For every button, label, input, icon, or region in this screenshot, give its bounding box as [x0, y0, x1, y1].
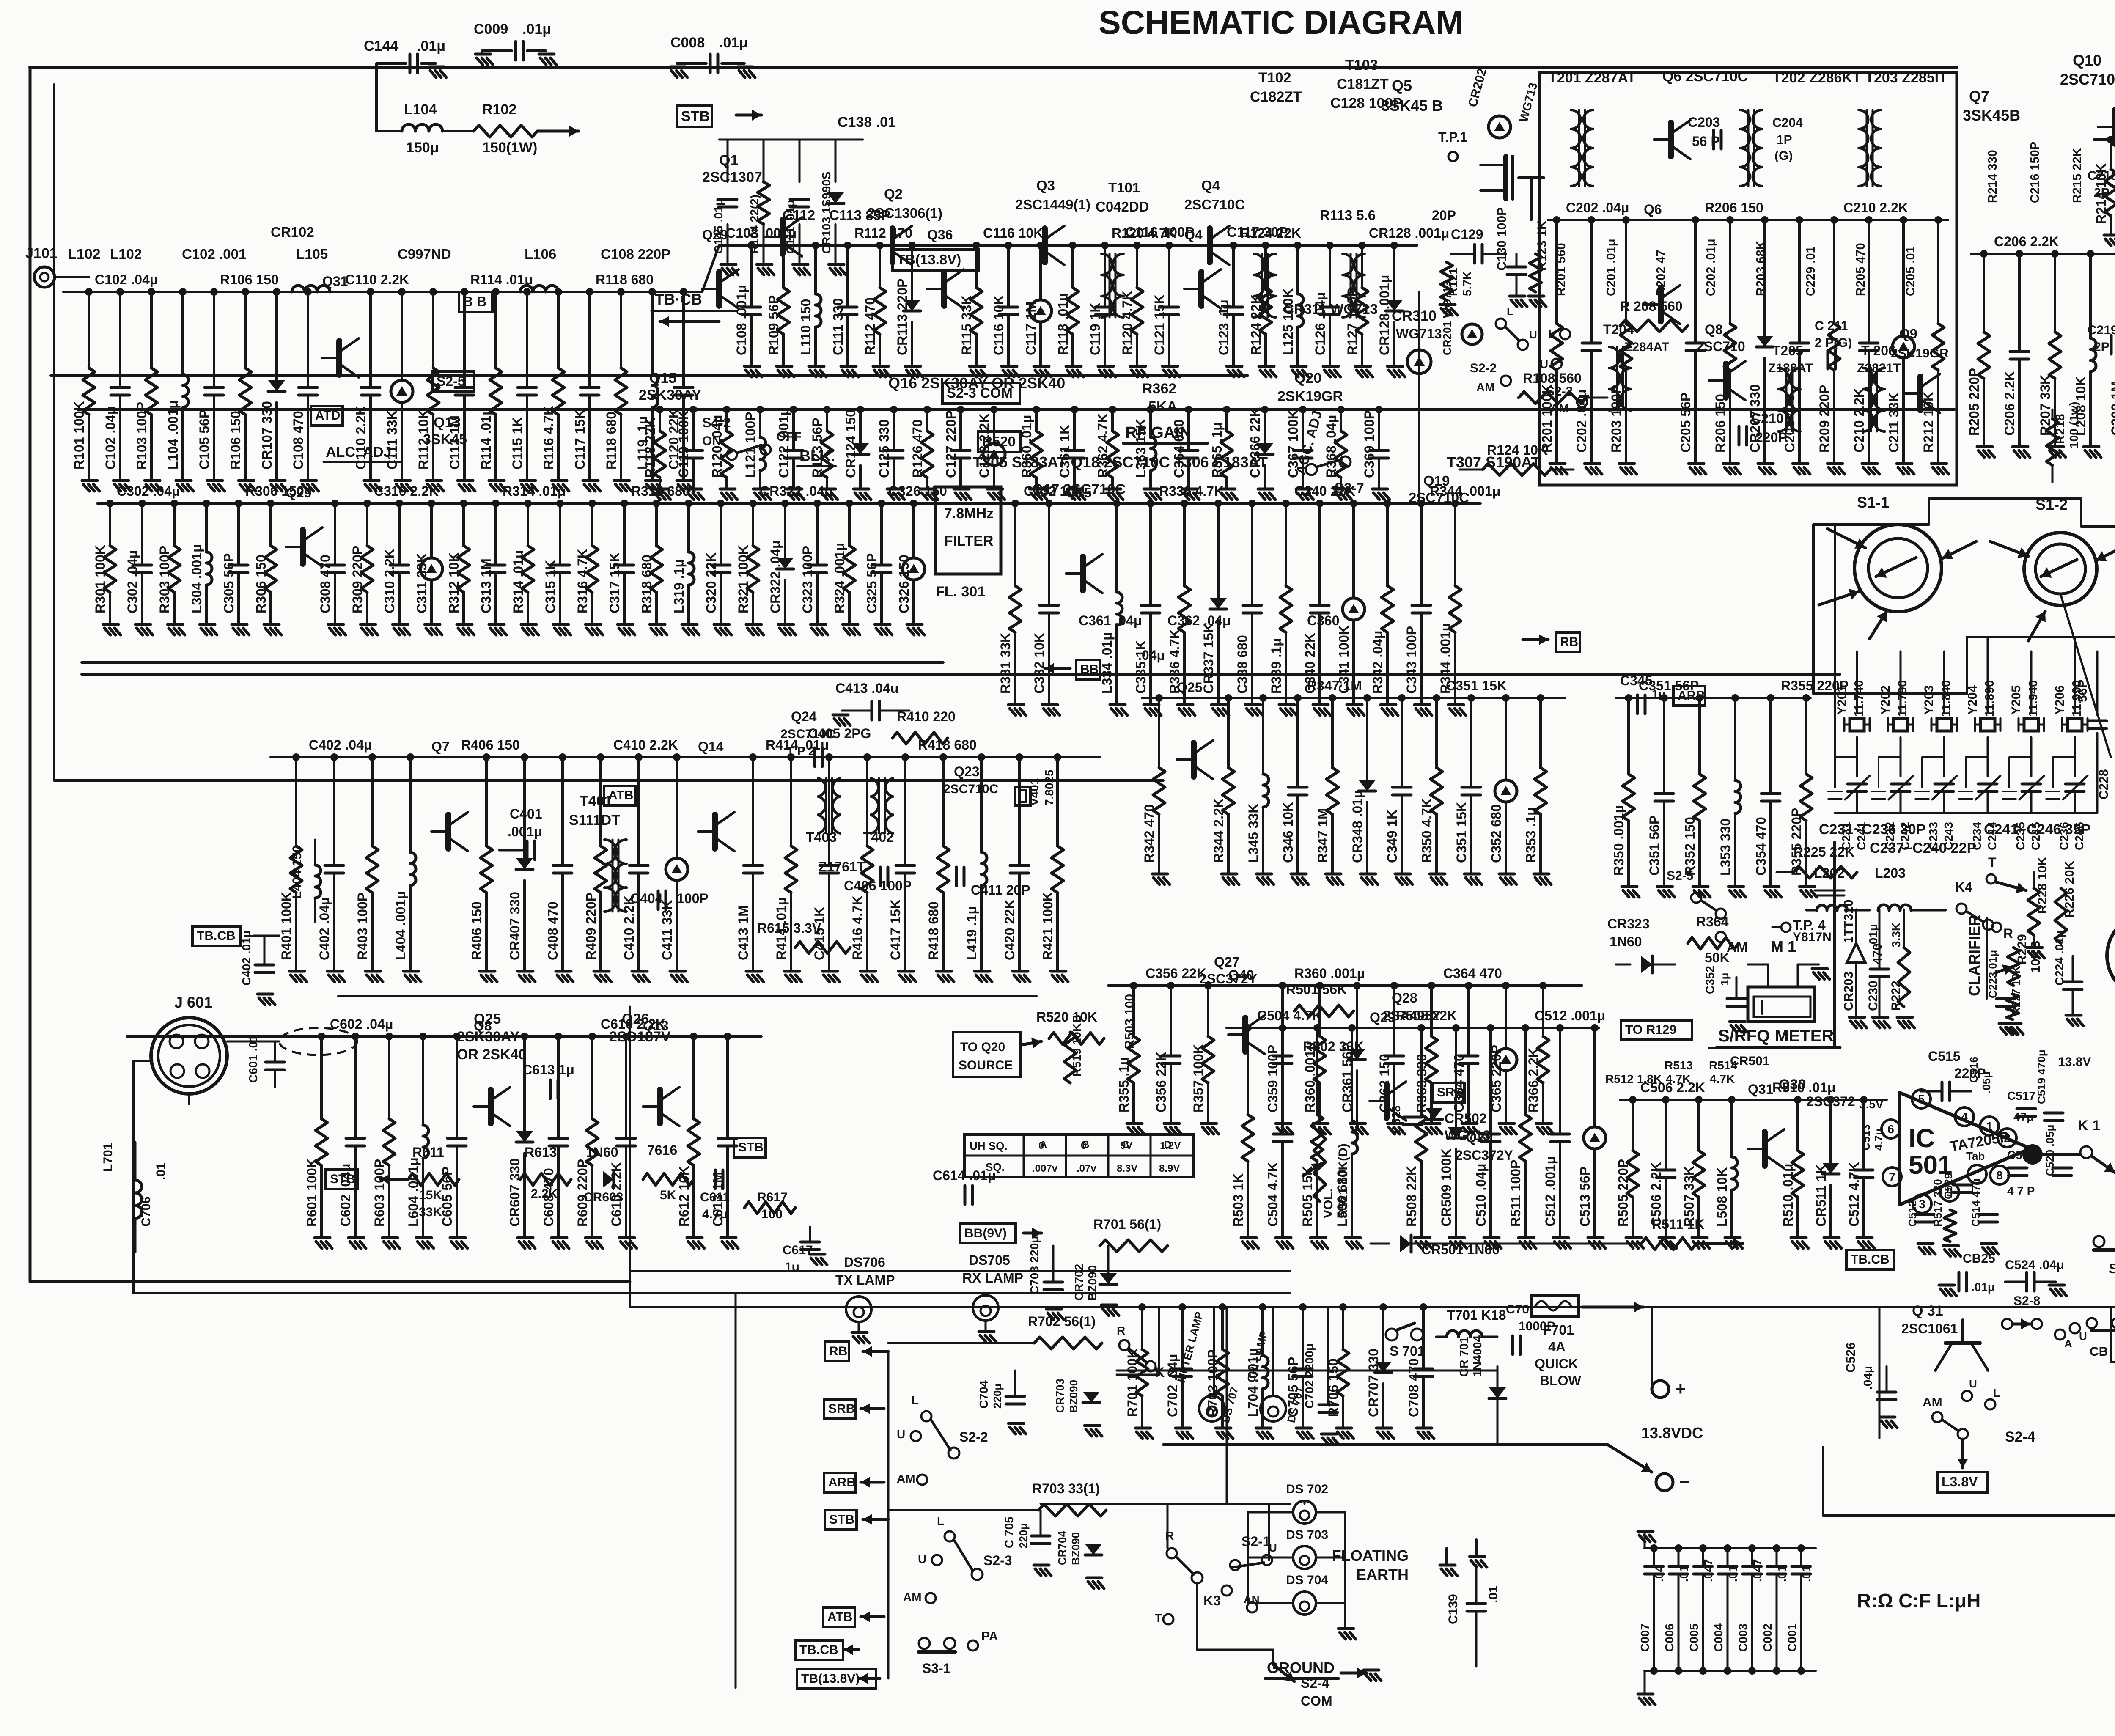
- svg-text:4A: 4A: [1548, 1339, 1566, 1354]
- svg-text:R401 100K: R401 100K: [279, 892, 294, 960]
- svg-text:C302 .04μ: C302 .04μ: [117, 483, 180, 499]
- svg-text:C211 33K: C211 33K: [1886, 393, 1901, 453]
- label A U circles: [2055, 1329, 2065, 1340]
- wire bus 3240: [1117, 1370, 1497, 1372]
- svg-text:R202 47: R202 47: [1654, 250, 1668, 296]
- svg-text:R344 2.2K: R344 2.2K: [1211, 798, 1226, 863]
- svg-text:U: U: [897, 1428, 905, 1441]
- boxed label TO Q20 SOURCE: [953, 1032, 1021, 1077]
- capacitor C512: [1862, 1100, 1865, 1170]
- svg-text:R502 33K: R502 33K: [1303, 1039, 1364, 1054]
- inductor L704: [1261, 1307, 1264, 1356]
- resistor R115: [975, 245, 978, 288]
- svg-text:R512 1.8K: R512 1.8K: [1605, 1072, 1662, 1085]
- svg-text:R342 470: R342 470: [1142, 804, 1157, 863]
- capacitor C415: [828, 757, 830, 865]
- svg-text:CR322 .04μ: CR322 .04μ: [768, 540, 783, 613]
- svg-text:2SK30AY: 2SK30AY: [457, 1029, 519, 1045]
- inductor L334: [1115, 503, 1118, 592]
- svg-text:8: 8: [1996, 1169, 2003, 1182]
- svg-text:R364: R364: [1696, 914, 1729, 929]
- svg-text:.01: .01: [154, 1162, 168, 1180]
- svg-text:C182ZT: C182ZT: [1250, 89, 1302, 105]
- trimmer C246: [2066, 784, 2084, 791]
- inductor L363: [1149, 409, 1152, 437]
- inductor L119: [651, 292, 654, 374]
- pin 8 IC501: [1990, 1166, 2009, 1184]
- svg-text:U: U: [2079, 1330, 2087, 1343]
- resistor R409: [599, 757, 602, 846]
- connector J101: [34, 267, 55, 287]
- boxed label S2-5: [432, 371, 474, 392]
- svg-text:C408 470: C408 470: [545, 901, 560, 960]
- wire vertical feeds bottom: [887, 1351, 890, 1678]
- svg-text:U: U: [1540, 357, 1548, 371]
- boxed label R520: [978, 431, 1021, 452]
- svg-text:T: T: [1155, 1612, 1162, 1625]
- svg-text:C516: C516: [1967, 1057, 1980, 1083]
- capacitor C613: [726, 1036, 729, 1138]
- svg-text:R209 220P: R209 220P: [1817, 385, 1832, 453]
- inductor L508: [1730, 1100, 1733, 1157]
- svg-text:U: U: [1969, 1377, 1977, 1390]
- svg-text:Q8: Q8: [1705, 322, 1723, 337]
- svg-text:R 208 560: R 208 560: [1620, 299, 1683, 314]
- transistor Q122: [1198, 272, 1204, 306]
- resistor R421: [1056, 757, 1059, 846]
- svg-text:Q9: Q9: [1899, 326, 1917, 341]
- svg-text:STB: STB: [681, 108, 710, 124]
- capacitor C317: [623, 503, 626, 565]
- capacitor C338: [1251, 503, 1253, 605]
- svg-text:EARTH: EARTH: [1356, 1566, 1409, 1583]
- svg-text:C007: C007: [1638, 1623, 1651, 1652]
- svg-text:Q30: Q30: [1779, 1077, 1806, 1093]
- resistor R701: [1141, 1307, 1143, 1349]
- svg-text:SOURCE: SOURCE: [959, 1058, 1013, 1072]
- svg-text:R503 1K: R503 1K: [1231, 1173, 1246, 1227]
- diode CR511: [1829, 1100, 1832, 1163]
- svg-text:7.8MHz: 7.8MHz: [944, 505, 994, 522]
- svg-text:C203: C203: [1688, 115, 1720, 130]
- capacitor C354: [1769, 698, 1772, 794]
- svg-text:S2-3: S2-3: [983, 1553, 1012, 1568]
- svg-text:C528: C528: [1390, 1105, 1403, 1134]
- boxed label L3.8V: [1937, 1472, 1988, 1492]
- svg-text:R406 150: R406 150: [469, 901, 484, 960]
- capacitor C102: [119, 292, 121, 387]
- svg-text:CR509 100K: CR509 100K: [1439, 1148, 1454, 1227]
- resistor R339: [1285, 503, 1287, 586]
- svg-text:L104: L104: [404, 102, 437, 118]
- resistor R350: [1627, 698, 1630, 774]
- svg-text:CR348 .01μ: CR348 .01μ: [1350, 790, 1365, 863]
- svg-text:CR703: CR703: [1054, 1379, 1066, 1413]
- svg-text:SCHEMATIC DIAGRAM: SCHEMATIC DIAGRAM: [1099, 3, 1464, 41]
- svg-text:C512 .001μ: C512 .001μ: [1543, 1156, 1558, 1227]
- svg-text:56P: 56P: [2076, 680, 2090, 702]
- resistor R206: [1729, 220, 1731, 324]
- resistor R201: [1555, 220, 1558, 324]
- resistor R347: [1331, 698, 1334, 768]
- svg-text:.04μ: .04μ: [1138, 648, 1165, 663]
- rotary switch S1-1: [1854, 525, 1942, 612]
- diode CR407: [523, 757, 526, 858]
- svg-text:IC: IC: [1909, 1124, 1935, 1153]
- svg-text:C105 56P: C105 56P: [197, 409, 212, 470]
- capacitor C610: [625, 1036, 627, 1138]
- transistor Q611: [657, 1090, 663, 1123]
- svg-text:C349 1K: C349 1K: [1384, 810, 1400, 863]
- svg-text:C413 .04u: C413 .04u: [835, 681, 898, 696]
- transistor Q412: [712, 815, 718, 849]
- capacitor C359: [1281, 986, 1284, 1056]
- capacitor C111: [799, 140, 801, 182]
- svg-text:DS 702: DS 702: [1286, 1482, 1328, 1496]
- varactor CR201: [1462, 324, 1482, 344]
- svg-text:.01μ: .01μ: [719, 35, 748, 51]
- transformer T401: [604, 840, 617, 912]
- svg-text:C116 10K: C116 10K: [983, 225, 1043, 241]
- svg-text:C237~C240 22P: C237~C240 22P: [1870, 840, 1976, 856]
- resistor R120: [1136, 245, 1138, 288]
- svg-text:2SC710C: 2SC710C: [943, 782, 998, 796]
- svg-text:11.840: 11.840: [1939, 680, 1953, 717]
- svg-text:R106 150: R106 150: [228, 411, 243, 470]
- svg-text:R362: R362: [1142, 381, 1176, 397]
- transistor Q606: [488, 1090, 494, 1123]
- svg-text:R331 33K: R331 33K: [998, 633, 1013, 694]
- capacitor C602: [354, 1036, 357, 1138]
- svg-text:C005: C005: [1687, 1623, 1700, 1652]
- svg-text:S2-5: S2-5: [1667, 869, 1693, 883]
- svg-text:S 701: S 701: [1390, 1343, 1425, 1359]
- svg-text:L202: L202: [1814, 865, 1845, 881]
- svg-text:R406 150: R406 150: [461, 737, 520, 753]
- boxed label BB row1: [459, 292, 492, 312]
- capacitor C320: [720, 503, 722, 565]
- svg-text:R355 220P: R355 220P: [1789, 808, 1804, 876]
- resistor R126: [926, 409, 928, 431]
- fuse F701: [1531, 1295, 1579, 1316]
- svg-text:C320 22K: C320 22K: [703, 552, 719, 613]
- svg-text:C121 15K: C121 15K: [1152, 294, 1167, 355]
- svg-text:C210 2.2K: C210 2.2K: [1843, 200, 1908, 215]
- resistor R360: [1035, 409, 1038, 431]
- svg-text:C704: C704: [977, 1380, 990, 1409]
- resistor R352: [1698, 698, 1701, 774]
- svg-text:L508 10K: L508 10K: [1714, 1167, 1730, 1227]
- svg-text:L102: L102: [68, 246, 101, 262]
- svg-text:R118 22K: R118 22K: [643, 418, 658, 478]
- wire audio bus: [127, 1035, 761, 1038]
- svg-text:S4-2: S4-2: [702, 415, 731, 430]
- diode CR366: [1264, 409, 1266, 443]
- resistor R355: [1805, 698, 1807, 774]
- svg-text:Y204: Y204: [1966, 685, 1980, 715]
- svg-text:ATB: ATB: [608, 788, 633, 802]
- svg-text:C352 680: C352 680: [1489, 804, 1504, 863]
- svg-text:C351 56P: C351 56P: [1647, 816, 1662, 876]
- svg-text:R101 100K: R101 100K: [71, 401, 87, 470]
- resistor R706: [1342, 1307, 1344, 1349]
- svg-text:2P: 2P: [2094, 186, 2110, 200]
- boxed label ARB: [1673, 686, 1705, 706]
- svg-text:R603 100P: R603 100P: [372, 1159, 387, 1227]
- svg-text:C513 56P: C513 56P: [1577, 1167, 1593, 1227]
- label U L q31: [1962, 1391, 1972, 1401]
- svg-text:C 211: C 211: [1815, 319, 1848, 333]
- svg-text:Q25: Q25: [1177, 680, 1202, 695]
- resistor R118: [620, 292, 622, 368]
- inductor L104: [402, 124, 442, 131]
- resistor R102: [474, 125, 537, 137]
- svg-text:QUICK: QUICK: [1535, 1356, 1578, 1371]
- resistor R336: [1183, 503, 1186, 586]
- svg-text:R127 100P: R127 100P: [1345, 288, 1360, 355]
- svg-text:+: +: [1675, 1379, 1686, 1399]
- svg-text:L701: L701: [101, 1143, 115, 1172]
- transistor Q107: [716, 272, 722, 306]
- svg-text:C204: C204: [1772, 116, 1803, 130]
- varactor C513: [1593, 1028, 1596, 1127]
- svg-text:Q5: Q5: [1392, 77, 1412, 94]
- svg-text:L106: L106: [525, 246, 556, 262]
- svg-text:C417 15K: C417 15K: [888, 899, 903, 960]
- svg-text:T701 K18: T701 K18: [1447, 1307, 1506, 1323]
- svg-text:CR103 1S990S: CR103 1S990S: [820, 171, 833, 254]
- cable shield: [279, 1028, 357, 1055]
- svg-text:BZ090: BZ090: [1086, 1265, 1099, 1301]
- bus y1566: [82, 661, 943, 664]
- svg-text:S3-1: S3-1: [922, 1661, 951, 1676]
- svg-text:R350 4.7K: R350 4.7K: [1419, 798, 1434, 863]
- capacitor C349: [1401, 698, 1403, 787]
- meter box outline: [1709, 842, 1835, 1048]
- pin 3 IC501: [1913, 1195, 1931, 1213]
- svg-text:C313 1M: C313 1M: [478, 558, 494, 613]
- label ATB box: [604, 786, 636, 805]
- inductor L506: [1351, 1028, 1353, 1121]
- diode CR322: [784, 503, 786, 558]
- svg-text:Q7: Q7: [431, 739, 450, 754]
- inductor L106 chain: [520, 286, 558, 292]
- svg-text:C356 22K: C356 22K: [1145, 966, 1206, 981]
- svg-text:C125 330: C125 330: [876, 419, 892, 478]
- svg-text:L345 33K: L345 33K: [1246, 803, 1261, 863]
- resistor R118: [1071, 245, 1074, 288]
- svg-text:C003: C003: [1736, 1623, 1750, 1652]
- svg-text:2SC710C: 2SC710C: [1184, 197, 1245, 212]
- svg-text:.007v: .007v: [1032, 1163, 1058, 1174]
- svg-text:Q13: Q13: [434, 415, 461, 431]
- svg-text:C111 33K: C111 33K: [385, 410, 400, 470]
- svg-text:R336 4.7K: R336 4.7K: [1159, 483, 1224, 499]
- wire Q12 row bus: [97, 502, 1480, 505]
- svg-text:SRB: SRB: [1437, 1085, 1464, 1099]
- svg-text:R309 220P: R309 220P: [350, 546, 365, 613]
- svg-text:S2-2: S2-2: [1470, 361, 1497, 375]
- svg-text:C70: C70: [1506, 1302, 1529, 1316]
- power bus: [630, 1282, 2115, 1307]
- svg-text:R316 4.7K: R316 4.7K: [575, 549, 590, 613]
- wire K3 to S24: [1197, 1583, 1273, 1665]
- svg-text:C332 10K: C332 10K: [1032, 633, 1047, 694]
- svg-text:220P: 220P: [1755, 430, 1787, 445]
- svg-text:CR128 .001μ: CR128 .001μ: [1369, 225, 1449, 241]
- capacitor C506: [1665, 1100, 1667, 1170]
- capacitor C356: [1170, 986, 1172, 1056]
- svg-text:3.5V: 3.5V: [1859, 1098, 1884, 1111]
- svg-text:L121 100P: L121 100P: [743, 412, 758, 478]
- capacitor C001: [1800, 1548, 1802, 1565]
- inductor L121: [759, 409, 761, 437]
- svg-text:C181ZT: C181ZT: [1337, 76, 1389, 92]
- transistor Q1 sym: [780, 220, 786, 254]
- svg-text:C201 .01μ: C201 .01μ: [1604, 239, 1618, 296]
- svg-text:L334 .01μ: L334 .01μ: [1099, 632, 1115, 694]
- svg-text:R115 33K: R115 33K: [959, 295, 974, 355]
- svg-text:R:Ω C:F L:μH: R:Ω C:F L:μH: [1857, 1590, 1980, 1612]
- svg-text:R347 1M: R347 1M: [1307, 678, 1362, 693]
- svg-text:TO R129: TO R129: [1625, 1023, 1676, 1037]
- capacitor C117: [588, 292, 591, 387]
- capacitor C121: [1168, 245, 1170, 307]
- resistor R507: [1697, 1100, 1700, 1151]
- inductor L404: [409, 757, 412, 852]
- svg-text:C 705: C 705: [1003, 1516, 1016, 1548]
- resistor R362: [1111, 409, 1114, 431]
- svg-text:R301 100K: R301 100K: [93, 545, 108, 613]
- transistor Q6 sym: [1668, 123, 1674, 157]
- svg-text:U: U: [1269, 1541, 1277, 1554]
- svg-text:C524 .04μ: C524 .04μ: [2005, 1258, 2064, 1272]
- svg-text:Z284AT: Z284AT: [1624, 340, 1669, 354]
- meter M1: [1748, 987, 1815, 1022]
- svg-text:S111DT: S111DT: [569, 812, 620, 828]
- svg-text:R318 680: R318 680: [639, 555, 654, 613]
- svg-text:11.940: 11.940: [2027, 680, 2040, 717]
- svg-text:U: U: [1529, 328, 1537, 341]
- svg-text:C413 1M: C413 1M: [736, 905, 751, 960]
- capacitor C340: [1318, 503, 1321, 605]
- capacitor C006: [1678, 1548, 1680, 1565]
- svg-text:C111 330: C111 330: [830, 298, 846, 355]
- wire top chain: [63, 291, 702, 293]
- svg-text:Q28: Q28: [1392, 990, 1417, 1005]
- svg-text:C504 4.7K: C504 4.7K: [1257, 1008, 1322, 1023]
- svg-text:C310 2.2K: C310 2.2K: [374, 483, 439, 499]
- svg-text:9V: 9V: [1120, 1140, 1132, 1151]
- boxed label TB(13.8V) bottom: [797, 1669, 876, 1689]
- resistor R312: [462, 503, 465, 546]
- svg-text:S2-7: S2-7: [1335, 480, 1364, 496]
- svg-text:L: L: [912, 1394, 919, 1407]
- svg-text:C004: C004: [1712, 1623, 1725, 1652]
- svg-text:R215 22K: R215 22K: [2071, 148, 2084, 203]
- capacitor C113: [463, 292, 466, 387]
- svg-text:ATB: ATB: [827, 1610, 852, 1624]
- svg-text:C514 47u: C514 47u: [1969, 1178, 1982, 1227]
- transistor Q509: [1762, 1132, 1768, 1166]
- svg-text:C326 150: C326 150: [896, 555, 912, 613]
- svg-text:R318 680: R318 680: [631, 483, 690, 499]
- svg-text:R511 1K: R511 1K: [1652, 1217, 1705, 1232]
- svg-text:Q19: Q19: [1423, 473, 1450, 489]
- svg-text:.01μ: .01μ: [1971, 1280, 1995, 1294]
- svg-text:C110 2.2K: C110 2.2K: [345, 272, 409, 287]
- svg-text:.07v: .07v: [1077, 1163, 1096, 1174]
- svg-text:5.7K: 5.7K: [1461, 271, 1474, 296]
- svg-text:R113 5.6: R113 5.6: [1320, 207, 1376, 223]
- boxed label SRB mid: [1433, 1083, 1464, 1102]
- svg-text:L104 .001μ: L104 .001μ: [165, 400, 181, 470]
- svg-text:2SC372Y: 2SC372Y: [1199, 971, 1257, 986]
- capacitor C305: [237, 503, 240, 565]
- svg-text:L125 100K: L125 100K: [1280, 288, 1296, 355]
- svg-text:2: 2: [2004, 1132, 2011, 1145]
- svg-text:6: 6: [1887, 1123, 1894, 1136]
- resistor R109: [782, 245, 785, 288]
- capacitor C364: [1467, 986, 1470, 1056]
- resistor R418: [942, 757, 945, 846]
- transistor Q114: [941, 272, 947, 306]
- svg-text:R355 .1μ: R355 .1μ: [1116, 1057, 1132, 1112]
- svg-text:2SK30AY: 2SK30AY: [639, 387, 701, 403]
- resistor R503: [1247, 1028, 1249, 1115]
- svg-text:R120 4.7K: R120 4.7K: [1120, 291, 1135, 355]
- capacitor C228 56P: [2096, 651, 2099, 715]
- svg-text:C706: C706: [139, 1196, 153, 1227]
- svg-text:C420 22K: C420 22K: [1002, 899, 1017, 960]
- trimmer C244: [1978, 784, 1997, 791]
- svg-text:2SC710: 2SC710: [1696, 339, 1745, 354]
- capacitor C127: [959, 409, 962, 450]
- resistor R212: [1937, 220, 1939, 324]
- svg-text:K4: K4: [1955, 879, 1972, 895]
- svg-text:C351 15K: C351 15K: [1446, 678, 1507, 693]
- svg-text:1TT310: 1TT310: [1842, 900, 1856, 943]
- box T201 section: [1539, 72, 1957, 485]
- svg-text:2SD187V: 2SD187V: [609, 1029, 671, 1045]
- resistor R703: [1221, 1307, 1224, 1349]
- svg-text:Z188AT: Z188AT: [1768, 361, 1813, 375]
- svg-text:C108 .001μ: C108 .001μ: [734, 285, 749, 355]
- varactor C311: [430, 503, 433, 558]
- svg-text:C354 470: C354 470: [1753, 817, 1769, 876]
- crystal bus: [1835, 812, 2097, 814]
- svg-text:5K: 5K: [660, 1188, 676, 1202]
- svg-text:L203: L203: [1875, 865, 1906, 881]
- svg-text:150μ: 150μ: [406, 140, 439, 156]
- svg-text:C708 470: C708 470: [1406, 1358, 1421, 1417]
- resistor R112: [879, 245, 881, 288]
- bus TB line: [51, 374, 1248, 377]
- svg-text:13.8VDC: 13.8VDC: [1641, 1424, 1703, 1442]
- svg-text:Q15: Q15: [649, 370, 676, 386]
- capacitor C123: [1232, 245, 1235, 307]
- svg-text:CR311 WG713: CR311 WG713: [1284, 301, 1378, 317]
- svg-text:R201 560: R201 560: [1555, 243, 1568, 296]
- diode CR107: [275, 292, 278, 380]
- svg-text:T102: T102: [1258, 70, 1291, 86]
- pin 5 IC501: [1912, 1090, 1931, 1108]
- svg-text:2SC710C: 2SC710C: [1409, 490, 1469, 505]
- svg-text:R368 .04μ: R368 .04μ: [1324, 415, 1339, 478]
- svg-text:TB(13.8V): TB(13.8V): [801, 1672, 860, 1686]
- svg-text:C997ND: C997ND: [398, 246, 451, 262]
- transformer T203: [1859, 110, 1868, 186]
